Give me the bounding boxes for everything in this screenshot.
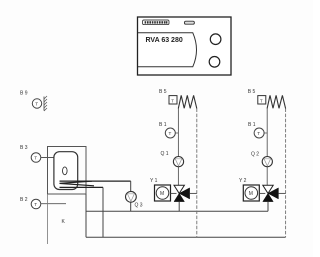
svg-text:Y 2: Y 2 (239, 178, 247, 184)
svg-text:T: T (34, 202, 37, 207)
svg-text:B 1: B 1 (159, 122, 167, 128)
svg-text:RVA 63 280: RVA 63 280 (146, 37, 183, 44)
svg-text:B 5: B 5 (248, 89, 256, 95)
svg-text:Q 2: Q 2 (251, 151, 259, 157)
svg-text:B 5: B 5 (159, 89, 167, 95)
svg-text:Q 1: Q 1 (161, 151, 169, 157)
svg-text:T: T (169, 131, 172, 136)
svg-text:B 9: B 9 (20, 91, 28, 97)
svg-text:T: T (34, 156, 37, 161)
svg-text:Q 3: Q 3 (135, 203, 143, 209)
svg-text:Y 1: Y 1 (150, 178, 158, 184)
svg-text:M: M (160, 191, 164, 197)
svg-text:B 1: B 1 (248, 122, 256, 128)
svg-text:T: T (171, 98, 174, 103)
svg-text:T: T (35, 102, 38, 107)
svg-text:B 3: B 3 (20, 145, 28, 151)
svg-text:B 2: B 2 (20, 197, 28, 203)
